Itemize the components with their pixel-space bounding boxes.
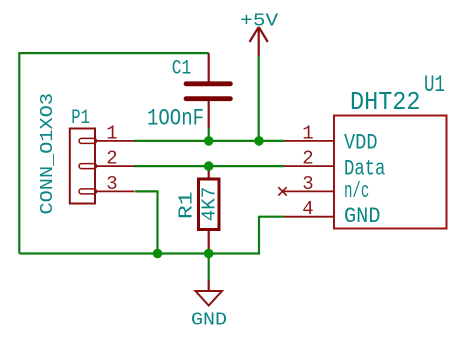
junction at R1 bottom / GND stem / bottom rail xyxy=(204,249,214,259)
junction at P1 pin3 riser / bottom rail xyxy=(153,249,163,259)
svg-text:+5V: +5V xyxy=(240,10,278,31)
no-connect x marker on pin 3 xyxy=(278,187,286,195)
svg-text:n/c: n/c xyxy=(344,178,369,204)
resistor R1 body xyxy=(199,179,220,230)
svg-text:4: 4 xyxy=(302,198,313,220)
svg-text:CONN_O1XO3: CONN_O1XO3 xyxy=(37,93,58,215)
IC U1 body xyxy=(334,116,447,229)
wire: bottom horizontal and riser to U1 pin 4 xyxy=(19,217,284,254)
svg-text:C1: C1 xyxy=(172,58,192,81)
wire: pin 1 row P1 to U1 VDD xyxy=(134,140,284,142)
svg-text:U1: U1 xyxy=(424,72,445,99)
svg-text:2: 2 xyxy=(302,148,313,170)
P1 pin 2 tab xyxy=(79,164,97,169)
power symbol +5V arrow xyxy=(250,27,268,56)
svg-text:1: 1 xyxy=(106,122,117,144)
wire: pin 3 of P1 down to bottom rail xyxy=(135,191,158,253)
P1 pin 1 tab xyxy=(79,138,97,143)
svg-text:2: 2 xyxy=(106,148,117,170)
junction at R1 top / pin2 row xyxy=(204,161,214,171)
connector P1 body xyxy=(70,129,95,204)
capacitor C1 xyxy=(186,53,230,128)
svg-text:R1: R1 xyxy=(176,192,198,220)
svg-text:3: 3 xyxy=(302,173,313,195)
wire: pin 2 row P1 to U1 Data xyxy=(134,165,284,167)
ground symbol xyxy=(196,281,223,306)
svg-text:1: 1 xyxy=(302,122,313,144)
wire: +5V stem (green part) xyxy=(258,56,260,141)
svg-text:GND: GND xyxy=(344,203,381,229)
R1 bottom lead xyxy=(208,231,210,254)
U1 pin 1 line xyxy=(284,140,334,142)
svg-text:1OOnF: 1OOnF xyxy=(147,106,204,132)
U1 pin 4 line xyxy=(284,216,334,218)
svg-text:3: 3 xyxy=(106,173,117,195)
wire: C1 bottom lead (green part) xyxy=(208,128,210,141)
svg-text:P1: P1 xyxy=(71,107,90,130)
P1 pin 1 line xyxy=(95,140,135,142)
svg-text:DHT22: DHT22 xyxy=(350,87,421,117)
P1 pin 3 line xyxy=(95,190,135,192)
U1 pin 3 line (n/c) xyxy=(283,190,335,192)
U1 pin 2 line xyxy=(284,165,334,167)
wire: GND stem (green part) xyxy=(208,254,210,281)
svg-text:4K7: 4K7 xyxy=(199,187,221,222)
wire: top horizontal from left loop to C1 top xyxy=(19,53,208,253)
junction at C1 bottom / pin1 row xyxy=(204,136,214,146)
P1 pin 3 tab xyxy=(79,189,97,194)
R1 top lead xyxy=(208,166,210,177)
P1 pin 2 line xyxy=(95,165,135,167)
svg-text:GND: GND xyxy=(191,310,227,330)
svg-text:VDD: VDD xyxy=(344,130,378,156)
junction at +5V stem / pin1 row xyxy=(254,136,264,146)
